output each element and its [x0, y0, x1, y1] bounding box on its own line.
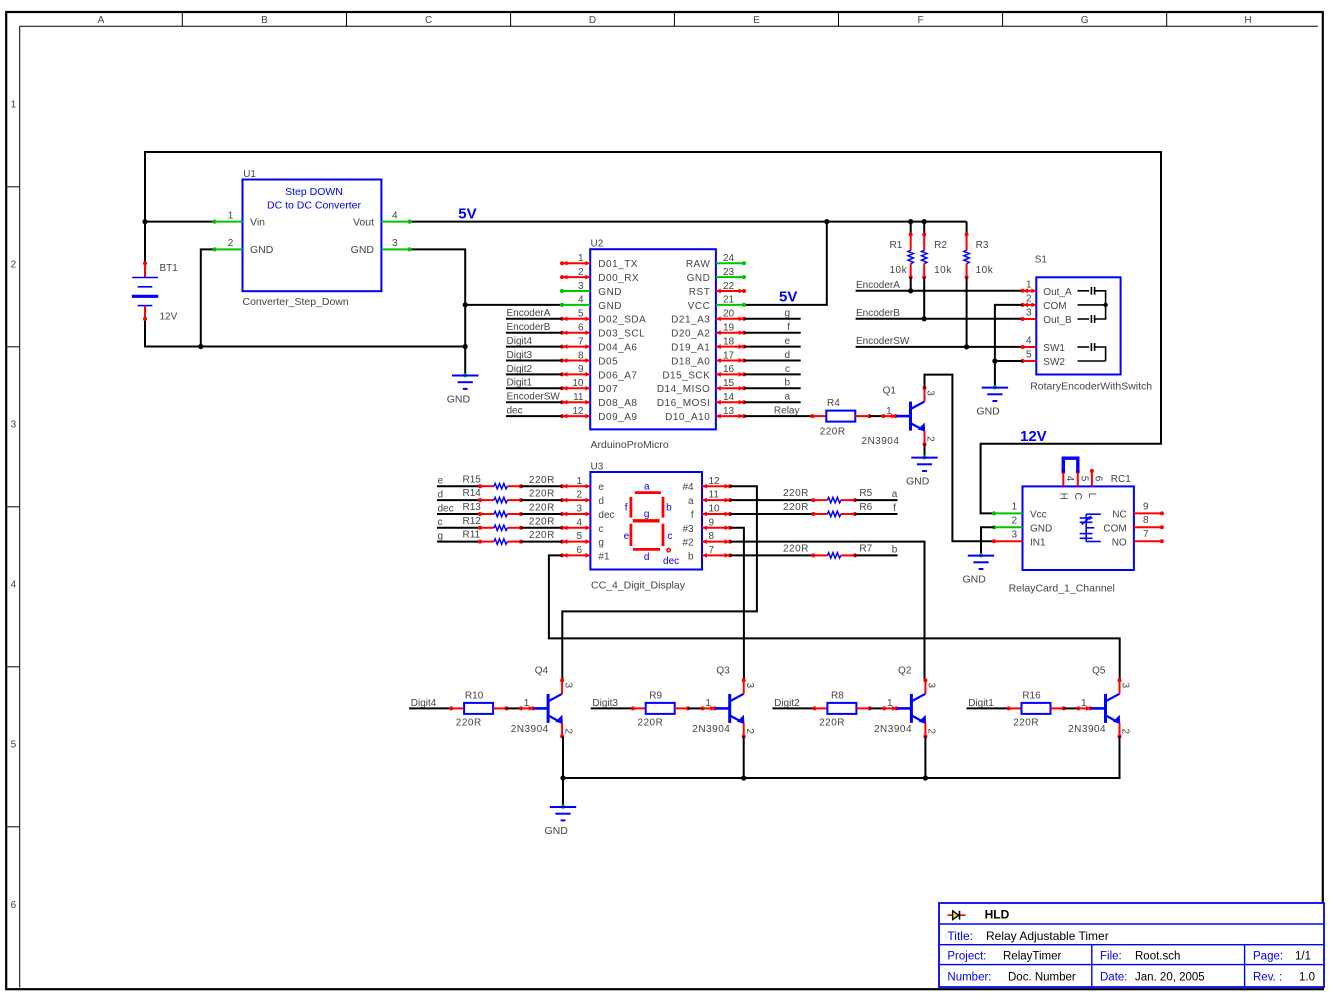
svg-text:220R: 220R	[783, 502, 809, 513]
net label EncoderA at U2 pin 5	[506, 308, 562, 319]
svg-text:R8: R8	[831, 690, 844, 701]
svg-text:D: D	[589, 15, 596, 26]
svg-text:220R: 220R	[819, 717, 845, 728]
U3 pin 11 a	[688, 490, 732, 507]
RC1 pin 1 Vcc	[992, 502, 1047, 521]
svg-text:e: e	[624, 531, 630, 542]
svg-text:D05: D05	[598, 356, 618, 367]
U2 pin 23 GND	[687, 267, 747, 284]
wire 5V rail U1 Vout to resistors	[410, 219, 967, 224]
RC1 pin 9 NC	[1112, 501, 1164, 520]
svg-text:9: 9	[1143, 501, 1149, 512]
S1 internal encoder contacts	[1078, 287, 1108, 361]
svg-text:220R: 220R	[783, 543, 809, 554]
U2 pin 1 D01_TX	[560, 253, 638, 270]
net label g at U2 pin 20	[744, 308, 801, 319]
svg-text:D06_A7: D06_A7	[598, 370, 637, 381]
svg-text:7: 7	[1143, 529, 1149, 540]
svg-text:RST: RST	[689, 287, 711, 298]
svg-text:220R: 220R	[529, 503, 555, 514]
svg-text:c: c	[438, 517, 443, 528]
relay card RC1	[1009, 474, 1134, 595]
U3 pin 8 #2	[682, 531, 732, 548]
svg-text:220R: 220R	[529, 475, 555, 486]
svg-text:b: b	[666, 503, 672, 514]
svg-text:Digit2: Digit2	[507, 364, 533, 375]
U3 seven segment glyph	[624, 482, 680, 567]
svg-text:c: c	[667, 531, 672, 542]
svg-text:220R: 220R	[529, 489, 555, 500]
svg-text:4: 4	[11, 580, 17, 591]
svg-text:DC to DC Converter: DC to DC Converter	[267, 199, 361, 211]
wire U3 pin9 #3 to Q3 collector	[730, 528, 744, 681]
svg-text:Vin: Vin	[250, 216, 265, 228]
RC1 top pin 6 L	[1086, 469, 1103, 499]
DC-DC converter U1	[243, 169, 382, 308]
svg-text:Root.sch: Root.sch	[1135, 950, 1180, 962]
U2 pin 16 D15_SCK	[662, 364, 746, 381]
net label Digit1 at U2 pin 10	[506, 378, 562, 389]
svg-text:2N3904: 2N3904	[692, 724, 730, 735]
svg-text:5V: 5V	[458, 206, 476, 223]
svg-text:g: g	[598, 538, 604, 549]
U2 pin 19 D20_A2	[671, 323, 746, 340]
wire R16 to Q5 base	[1064, 707, 1079, 709]
svg-text:R1: R1	[890, 240, 903, 251]
net label Digit4 wire	[409, 698, 451, 709]
svg-text:5: 5	[578, 309, 584, 320]
net label a at U2 pin 14	[744, 392, 801, 403]
svg-text:GND: GND	[447, 394, 471, 406]
svg-text:a: a	[892, 489, 898, 500]
svg-text:2: 2	[925, 436, 936, 442]
U2 pin 24 RAW	[686, 253, 746, 270]
net label Digit2 wire	[772, 698, 814, 709]
svg-text:12: 12	[572, 406, 584, 417]
svg-text:16: 16	[723, 364, 735, 375]
svg-text:R2: R2	[934, 240, 947, 251]
svg-text:R5: R5	[859, 488, 872, 499]
resistor R12 220R with net c	[437, 516, 562, 531]
svg-text:220R: 220R	[529, 530, 555, 541]
ground symbol below S1	[976, 385, 1008, 418]
svg-text:A: A	[98, 15, 105, 26]
svg-text:R16: R16	[1022, 690, 1041, 701]
svg-text:e: e	[598, 482, 604, 493]
svg-text:ArduinoProMicro: ArduinoProMicro	[591, 439, 669, 451]
U2 pin 15 D14_MISO	[657, 378, 746, 395]
svg-text:2N3904: 2N3904	[861, 436, 899, 447]
svg-text:Rev. :: Rev. :	[1253, 972, 1282, 984]
svg-text:1: 1	[228, 210, 234, 221]
svg-text:1.0: 1.0	[1299, 972, 1315, 984]
svg-text:220R: 220R	[529, 516, 555, 527]
svg-text:13: 13	[723, 406, 735, 417]
svg-text:3: 3	[925, 390, 936, 396]
wire R3 to EncoderSW	[964, 277, 969, 349]
svg-text:Relay Adjustable Timer: Relay Adjustable Timer	[986, 929, 1109, 943]
svg-text:GND: GND	[598, 301, 622, 312]
U3 pin 7 b	[688, 545, 732, 562]
svg-text:2: 2	[11, 260, 17, 271]
svg-text:2: 2	[1026, 294, 1032, 305]
svg-text:EncoderSW: EncoderSW	[856, 336, 910, 347]
svg-text:Jan. 20, 2005: Jan. 20, 2005	[1135, 972, 1205, 984]
resistor R8 220R	[813, 690, 872, 728]
U3 pin 4 c	[560, 517, 603, 534]
resistor R16 220R	[1007, 690, 1066, 728]
ground symbol below transistor rail	[545, 805, 577, 838]
net label EncoderB at U2 pin 6	[506, 322, 562, 333]
svg-text:Digit4: Digit4	[411, 698, 437, 709]
net label b at U2 pin 15	[744, 378, 801, 389]
title block title row	[947, 929, 1108, 943]
U2 pin 9 D06_A7	[560, 364, 637, 381]
svg-text:g: g	[784, 308, 790, 319]
U2 pin 10 D07	[560, 378, 618, 395]
svg-text:b: b	[784, 378, 790, 389]
svg-text:Digit1: Digit1	[507, 378, 533, 389]
svg-text:D00_RX: D00_RX	[598, 273, 639, 284]
svg-text:f: f	[787, 322, 790, 333]
svg-text:Vout: Vout	[353, 216, 374, 228]
net label Digit3 wire	[591, 698, 633, 709]
svg-text:2: 2	[228, 238, 234, 249]
svg-text:L: L	[1086, 493, 1097, 499]
svg-text:D02_SDA: D02_SDA	[598, 315, 646, 326]
svg-text:6: 6	[11, 900, 17, 911]
svg-text:NC: NC	[1112, 510, 1126, 521]
svg-text:8: 8	[709, 531, 715, 542]
U2 pin 7 D04_A6	[560, 336, 637, 353]
svg-text:R12: R12	[463, 516, 482, 527]
svg-text:10k: 10k	[890, 265, 908, 276]
net label EncoderSW at U2 pin 11	[506, 392, 562, 403]
svg-text:File:: File:	[1100, 950, 1122, 962]
svg-text:IN1: IN1	[1030, 537, 1046, 548]
U2 pin 3 GND	[560, 281, 622, 298]
svg-text:EncoderB: EncoderB	[507, 322, 551, 333]
svg-text:b: b	[892, 544, 898, 555]
svg-text:Date:: Date:	[1100, 972, 1128, 984]
svg-text:2: 2	[578, 267, 584, 278]
svg-text:6: 6	[578, 323, 584, 334]
svg-text:Page:: Page:	[1253, 950, 1283, 962]
svg-text:1: 1	[1081, 698, 1087, 709]
svg-text:12V: 12V	[1020, 428, 1047, 445]
svg-text:1: 1	[524, 698, 530, 709]
U3 pin 12 #4	[682, 476, 732, 493]
svg-text:f: f	[893, 503, 896, 514]
svg-text:4: 4	[576, 517, 582, 528]
transistor Q2 2N3904	[874, 666, 937, 739]
ground symbol below RC1	[963, 553, 995, 586]
svg-text:D01_TX: D01_TX	[598, 259, 638, 270]
resistor R13 220R with net dec	[437, 502, 562, 517]
svg-text:RC1: RC1	[1111, 474, 1131, 485]
svg-text:d: d	[438, 490, 444, 501]
svg-text:VCC: VCC	[688, 301, 711, 312]
svg-text:220R: 220R	[783, 488, 809, 499]
svg-text:C: C	[1072, 493, 1083, 500]
svg-text:R14: R14	[463, 488, 482, 499]
svg-text:19: 19	[723, 323, 735, 334]
resistor R14 220R with net d	[437, 488, 562, 503]
svg-text:SW1: SW1	[1043, 343, 1065, 354]
wire S1 COM and SW2 to ground	[992, 305, 1022, 387]
svg-text:5: 5	[576, 531, 582, 542]
wire battery plus to U1 Vin	[145, 221, 215, 223]
svg-text:D16_MOSI: D16_MOSI	[657, 398, 710, 409]
jumper wire between RC1 pins 4 and 5	[1063, 458, 1078, 472]
svg-text:NO: NO	[1112, 537, 1127, 548]
U1 pin 2 GND	[212, 238, 242, 251]
svg-text:1: 1	[578, 253, 584, 264]
svg-text:F: F	[917, 15, 923, 26]
svg-text:RelayTimer: RelayTimer	[1003, 950, 1062, 962]
resistor R15 220R with net e	[437, 474, 562, 489]
U2 pin 6 D03_SCL	[560, 323, 645, 340]
svg-text:U2: U2	[591, 239, 604, 250]
svg-text:R11: R11	[463, 530, 481, 541]
svg-text:COM: COM	[1103, 523, 1126, 534]
U2 pin 2 D00_RX	[560, 267, 639, 284]
svg-text:6: 6	[576, 545, 582, 556]
U3 pin 5 g	[560, 531, 604, 548]
svg-text:15: 15	[723, 378, 735, 389]
logo diode symbol	[948, 911, 966, 920]
svg-text:EncoderB: EncoderB	[856, 308, 900, 319]
RC1 pin 7 NO	[1112, 529, 1164, 548]
svg-text:12: 12	[709, 476, 721, 487]
wire RC1 GND pin to ground	[981, 527, 994, 555]
S1 pin 4 SW1	[1021, 336, 1066, 354]
title block project row	[947, 950, 1311, 962]
U2 pin 20 D21_A3	[671, 309, 746, 326]
svg-text:1: 1	[886, 406, 892, 417]
svg-text:220R: 220R	[637, 717, 663, 728]
U2 pin 11 D08_A8	[560, 392, 637, 409]
svg-text:Out_A: Out_A	[1043, 287, 1072, 298]
U2 pin 8 D05	[560, 350, 618, 367]
wire R8 to Q2 base	[870, 707, 885, 709]
svg-text:E: E	[753, 15, 760, 26]
U1 pin 3 GND	[381, 238, 411, 251]
svg-text:RAW: RAW	[686, 259, 711, 270]
net label c at U2 pin 16	[744, 364, 801, 375]
U3 pin 6 #1	[560, 545, 610, 562]
svg-text:D10_A10: D10_A10	[665, 412, 710, 423]
S1 pin 2 COM	[1021, 294, 1067, 312]
svg-text:Digit2: Digit2	[774, 698, 800, 709]
svg-text:d: d	[644, 552, 650, 563]
svg-text:R4: R4	[827, 398, 840, 409]
U2 pin 5 D02_SDA	[560, 309, 646, 326]
svg-text:CC_4_Digit_Display: CC_4_Digit_Display	[591, 579, 686, 591]
svg-text:e: e	[784, 336, 790, 347]
svg-text:EncoderA: EncoderA	[507, 308, 551, 319]
transistor Q5 2N3904	[1068, 666, 1131, 739]
svg-text:Title:: Title:	[947, 929, 973, 943]
svg-text:EncoderSW: EncoderSW	[507, 392, 561, 403]
svg-text:10: 10	[709, 504, 721, 515]
svg-text:dec: dec	[663, 556, 679, 567]
wire R9 to Q3 base	[688, 707, 703, 709]
resistor R1 10k pullup	[890, 222, 914, 280]
svg-text:GND: GND	[906, 476, 930, 488]
svg-text:3: 3	[578, 281, 584, 292]
svg-text:a: a	[644, 482, 650, 493]
svg-text:S1: S1	[1035, 254, 1048, 265]
svg-text:g: g	[644, 509, 650, 520]
svg-text:8: 8	[1143, 515, 1149, 526]
svg-text:B: B	[261, 15, 268, 26]
svg-text:dec: dec	[598, 510, 614, 521]
wire Q1 collector to RC1 IN1	[925, 375, 994, 542]
svg-text:2N3904: 2N3904	[1068, 724, 1106, 735]
svg-text:12V: 12V	[160, 312, 178, 323]
wire R1 to EncoderA	[908, 277, 913, 293]
svg-text:Step DOWN: Step DOWN	[285, 186, 343, 198]
svg-text:7: 7	[709, 545, 715, 556]
wire U3 pin6 #1 to Q5 collector bus	[549, 555, 1120, 681]
svg-text:R9: R9	[649, 690, 662, 701]
svg-text:C: C	[425, 15, 432, 26]
rotary encoder S1	[1030, 254, 1152, 392]
svg-text:23: 23	[723, 267, 735, 278]
svg-text:2: 2	[744, 728, 755, 734]
svg-text:Out_B: Out_B	[1043, 315, 1072, 326]
svg-text:2: 2	[576, 490, 582, 501]
microcontroller U2 ArduinoProMicro	[590, 239, 716, 452]
svg-text:Number:: Number:	[947, 972, 991, 984]
svg-text:D15_SCK: D15_SCK	[662, 370, 710, 381]
net label Digit1 wire	[967, 698, 1009, 709]
svg-text:GND: GND	[598, 287, 622, 298]
U2 pin 22 RST	[689, 281, 746, 298]
svg-text:Q5: Q5	[1092, 666, 1106, 677]
U2 pin 21 VCC	[688, 295, 746, 312]
U2 pin 12 D09_A9	[560, 406, 637, 423]
RC1 pin 8 COM	[1103, 515, 1164, 534]
wire emitter ground rail	[560, 736, 1119, 806]
svg-text:a: a	[784, 392, 790, 403]
svg-text:4: 4	[1026, 336, 1032, 347]
svg-text:20: 20	[723, 309, 735, 320]
svg-text:EncoderA: EncoderA	[856, 280, 900, 291]
svg-text:dec: dec	[438, 503, 454, 514]
svg-text:Converter_Step_Down: Converter_Step_Down	[243, 296, 349, 308]
svg-text:17: 17	[723, 350, 735, 361]
svg-text:a: a	[688, 496, 694, 507]
wire U3 pin12 #4 to Q4 collector	[562, 486, 757, 681]
resistor R4 220R	[811, 398, 872, 437]
resistor R9 220R	[631, 690, 690, 728]
svg-text:5: 5	[1078, 476, 1089, 482]
svg-text:GND: GND	[687, 273, 711, 284]
svg-text:1: 1	[705, 698, 711, 709]
svg-text:Digit3: Digit3	[507, 350, 533, 361]
svg-text:Vcc: Vcc	[1030, 510, 1047, 521]
svg-text:3: 3	[744, 683, 755, 689]
svg-text:f: f	[625, 503, 628, 514]
wire battery minus bottom rail to GND	[145, 319, 468, 349]
svg-text:Digit4: Digit4	[507, 336, 533, 347]
svg-text:3: 3	[576, 504, 582, 515]
svg-text:5: 5	[11, 740, 17, 751]
svg-text:G: G	[1081, 15, 1089, 26]
resistor R3 10k pullup	[964, 222, 994, 280]
svg-text:GND: GND	[545, 825, 569, 837]
svg-text:10k: 10k	[934, 265, 952, 276]
svg-text:2N3904: 2N3904	[511, 724, 549, 735]
U2 pin 17 D18_A0	[671, 350, 746, 367]
svg-text:D18_A0: D18_A0	[671, 356, 710, 367]
svg-text:4: 4	[392, 210, 398, 221]
svg-text:1: 1	[887, 698, 893, 709]
U3 pin 3 dec	[560, 504, 615, 521]
svg-text:GND: GND	[1030, 523, 1052, 534]
net label d at U2 pin 17	[744, 350, 801, 361]
ground symbol below U1	[447, 373, 479, 406]
svg-text:d: d	[598, 496, 604, 507]
svg-text:SW2: SW2	[1043, 357, 1065, 368]
svg-text:D07: D07	[598, 384, 618, 395]
svg-text:3: 3	[392, 238, 398, 249]
svg-text:Doc. Number: Doc. Number	[1008, 972, 1076, 984]
title block number row	[947, 972, 1315, 984]
svg-text:#3: #3	[682, 524, 694, 535]
svg-text:4: 4	[1064, 476, 1075, 482]
net label dec at U2 pin 12	[506, 406, 562, 417]
svg-text:14: 14	[723, 392, 735, 403]
U2 pin 14 D16_MOSI	[657, 392, 746, 409]
svg-text:g: g	[438, 531, 444, 542]
svg-text:3: 3	[1120, 683, 1131, 689]
svg-text:R3: R3	[976, 240, 989, 251]
svg-text:18: 18	[723, 336, 735, 347]
svg-text:e: e	[438, 476, 444, 487]
net label Relay at U2 pin 13	[744, 406, 813, 417]
wire U1 GND pin3 to ground node	[410, 249, 468, 375]
svg-text:GND: GND	[250, 244, 274, 256]
svg-text:Q1: Q1	[883, 386, 897, 397]
svg-text:c: c	[785, 364, 790, 375]
svg-text:BT1: BT1	[160, 263, 179, 274]
svg-text:COM: COM	[1043, 301, 1066, 312]
transistor Q1 2N3904	[861, 386, 935, 447]
svg-text:R10: R10	[465, 690, 484, 701]
svg-text:H: H	[1057, 493, 1068, 500]
title block	[939, 903, 1324, 987]
svg-text:1: 1	[1011, 502, 1017, 513]
svg-text:RotaryEncoderWithSwitch: RotaryEncoderWithSwitch	[1030, 380, 1152, 392]
wire R10 to Q4 base	[506, 707, 521, 709]
column labels A-H	[98, 15, 1252, 26]
svg-text:11: 11	[709, 490, 720, 501]
U2 pin 18 D19_A1	[671, 336, 746, 353]
svg-text:D04_A6: D04_A6	[598, 343, 637, 354]
wire R4 to Q1 base	[870, 415, 884, 417]
S1 pin 1 Out_A	[1021, 280, 1072, 298]
svg-text:24: 24	[723, 253, 735, 264]
svg-text:b: b	[688, 551, 694, 562]
svg-text:GND: GND	[351, 244, 375, 256]
svg-text:U1: U1	[243, 169, 256, 180]
svg-text:4: 4	[578, 295, 584, 306]
svg-text:220R: 220R	[456, 717, 482, 728]
S1 pin 3 Out_B	[1021, 308, 1072, 326]
